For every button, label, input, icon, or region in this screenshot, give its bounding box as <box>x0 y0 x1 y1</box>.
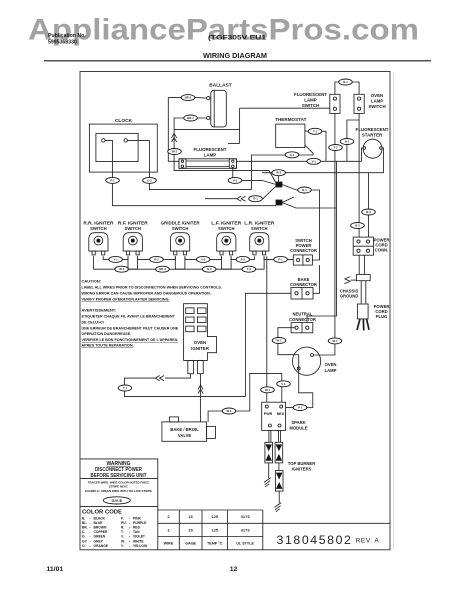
title rule <box>44 60 431 62</box>
svg-text:-: - <box>129 521 130 525</box>
svg-text:V.: V. <box>121 535 124 539</box>
svg-text:Y.: Y. <box>121 544 124 548</box>
svg-text:CHASSIS: CHASSIS <box>340 288 359 293</box>
svg-text:P.: P. <box>121 517 124 521</box>
svg-text:CAUTION:: CAUTION: <box>82 278 102 283</box>
svg-text:-: - <box>129 517 130 521</box>
warning and color code box <box>80 459 158 550</box>
svg-text:ORANGE: ORANGE <box>94 544 109 548</box>
wire to oven lamp left <box>278 344 299 355</box>
wire clock right terminal down <box>127 140 149 177</box>
svg-text:SWITCH: SWITCH <box>218 226 235 231</box>
ballast <box>207 82 232 127</box>
wire V-1 bus <box>236 160 361 162</box>
svg-text:VIOLET: VIOLET <box>133 535 145 539</box>
wire top switch bus <box>335 82 359 94</box>
svg-text:BR-3: BR-3 <box>159 267 166 271</box>
svg-text:R.F. IGNITER: R.F. IGNITER <box>118 220 149 225</box>
power cord plug <box>357 304 389 331</box>
svg-text:G-3: G-3 <box>207 267 212 271</box>
svg-text:P-2: P-2 <box>241 257 246 261</box>
svg-text:VALVE: VALVE <box>178 433 192 438</box>
svg-text:W-1: W-1 <box>276 339 282 343</box>
svg-text:PLUG: PLUG <box>376 314 388 319</box>
svg-text:BR.: BR. <box>82 526 88 530</box>
wire label R-1a <box>249 196 263 202</box>
svg-text:R-2: R-2 <box>154 257 159 261</box>
wire label A2 <box>196 256 210 262</box>
wire <box>236 373 282 411</box>
wire label V-1c <box>293 405 307 411</box>
svg-text:B-3: B-3 <box>366 210 371 214</box>
wire junction A down-left <box>249 186 276 199</box>
wire <box>205 198 237 200</box>
wire label B0 <box>115 266 129 272</box>
svg-text:W-2: W-2 <box>172 150 178 154</box>
wire power cord <box>358 255 360 274</box>
wire label W-1a <box>272 338 286 344</box>
svg-text:OVEN: OVEN <box>371 93 383 98</box>
wire fluorescent lamp switch down long <box>334 113 336 144</box>
bake connector <box>290 277 317 299</box>
svg-text:MODULE: MODULE <box>289 426 307 431</box>
wire <box>286 407 294 409</box>
wire <box>149 184 251 190</box>
wire L.R. switch to spark module PWR <box>266 256 268 386</box>
svg-text:G-1: G-1 <box>290 153 295 157</box>
svg-text:AVERTISSEMENT:: AVERTISSEMENT: <box>82 308 117 313</box>
wire label B-1a <box>339 79 353 85</box>
svg-text:2: 2 <box>167 514 170 519</box>
wire label T-1a <box>308 128 322 134</box>
svg-text:P-1: P-1 <box>278 257 283 261</box>
svg-text:G.: G. <box>82 535 86 539</box>
svg-text:PINK: PINK <box>133 517 141 521</box>
wire label W-4 <box>222 408 236 414</box>
wire L.R. switch to switch power connector <box>264 256 293 259</box>
svg-text:-: - <box>90 539 91 543</box>
main border frame <box>80 72 390 550</box>
wire label B2 <box>202 266 216 272</box>
svg-text:TEMP °C: TEMP °C <box>207 542 223 546</box>
svg-text:P-1: P-1 <box>110 178 115 182</box>
wire <box>322 131 326 161</box>
wire ballast right bus <box>240 107 330 109</box>
chevron up <box>198 385 203 394</box>
wire igniter switch chain bottom row <box>222 256 265 269</box>
svg-text:O.: O. <box>82 544 86 548</box>
chevron left <box>237 196 246 201</box>
switch power connector <box>290 238 317 265</box>
svg-text:B-1: B-1 <box>302 188 307 192</box>
svg-text:GAGE: GAGE <box>185 542 196 546</box>
svg-text:T-1: T-1 <box>123 386 127 390</box>
svg-text:T-1: T-1 <box>313 129 317 133</box>
wire label W-2b <box>272 170 286 176</box>
wire <box>368 215 370 237</box>
wire igniter switch chain bottom row <box>175 256 231 269</box>
chassis ground <box>340 277 359 299</box>
wire igniter 2 to igniter 3 <box>278 463 280 471</box>
wire ballast top-left <box>168 98 206 162</box>
chevron left <box>155 376 164 381</box>
wire power cord lower <box>360 281 362 304</box>
svg-text:STARTER: STARTER <box>362 133 383 138</box>
wire lamp right cap down <box>232 168 234 180</box>
neutral connector <box>289 312 316 333</box>
svg-text:SWITCH: SWITCH <box>125 226 142 231</box>
ground <box>264 478 271 487</box>
igniter switch R.F. IGNITER <box>118 220 149 255</box>
wire neutral drop from V bus <box>307 161 337 322</box>
svg-text:16: 16 <box>188 514 193 519</box>
wire label A1 <box>150 256 164 262</box>
strain relief <box>356 274 370 280</box>
svg-text:12: 12 <box>230 566 238 573</box>
svg-text:L.R. IGNITER: L.R. IGNITER <box>244 220 275 225</box>
wire label B1 <box>156 266 170 272</box>
fluorescent lamp switch <box>294 92 340 113</box>
svg-text:SPARK: SPARK <box>291 420 305 425</box>
svg-text:W-1: W-1 <box>265 388 271 392</box>
svg-text:LAMP: LAMP <box>304 98 317 103</box>
svg-text:3173: 3173 <box>241 514 251 519</box>
svg-text:-: - <box>129 535 130 539</box>
wire igniter switch chain bottom row <box>94 256 138 269</box>
wire label G-1 <box>285 152 299 158</box>
wire <box>112 184 276 206</box>
svg-text:LAMP: LAMP <box>204 153 217 158</box>
wire igniter switch chain top row <box>185 256 222 259</box>
wire label B-2 <box>351 223 365 229</box>
svg-text:B-2: B-2 <box>355 224 360 228</box>
bake broil valve <box>162 417 216 441</box>
junction node B <box>276 200 282 205</box>
svg-text:TAN: TAN <box>133 530 140 534</box>
svg-text:SWITCH: SWITCH <box>302 103 319 108</box>
wire starter right terminal to bus <box>382 148 384 173</box>
svg-text:B-1: B-1 <box>343 80 348 84</box>
svg-text:OVEN: OVEN <box>325 362 337 367</box>
svg-text:C.: C. <box>82 530 85 534</box>
fluorescent starter <box>356 127 389 158</box>
svg-text:T-3: T-3 <box>247 267 251 271</box>
svg-text:125: 125 <box>211 527 218 532</box>
svg-text:IGNITERS: IGNITERS <box>292 466 312 471</box>
wire <box>266 393 268 402</box>
svg-text:FLUORESCENT: FLUORESCENT <box>194 147 227 152</box>
wire ballast bus riser <box>239 108 241 143</box>
wire label P-1b <box>274 256 288 262</box>
svg-text:-: - <box>129 526 130 530</box>
svg-text:SWITCH: SWITCH <box>368 104 385 109</box>
svg-text:W-2: W-2 <box>276 171 282 175</box>
svg-text:V-1: V-1 <box>298 406 303 410</box>
wire junction A up <box>278 176 280 182</box>
svg-text:G-2: G-2 <box>147 178 152 182</box>
svg-text:T.: T. <box>121 530 124 534</box>
svg-text:OPERATION DANGEREUSE.: OPERATION DANGEREUSE. <box>82 332 132 336</box>
wire spec table <box>158 510 390 550</box>
svg-text:LAMP: LAMP <box>371 98 384 103</box>
wire <box>334 151 336 338</box>
wire thermostat lower diagonal <box>305 145 313 155</box>
wire thermostat right <box>305 130 308 133</box>
wire label B3 <box>242 266 256 272</box>
svg-text:ETIQUETER CHAQUE FIL AVANT LE: ETIQUETER CHAQUE FIL AVANT LE BRANCHEMEN… <box>82 315 176 319</box>
wire igniter 1 to ground <box>268 463 270 478</box>
wire <box>358 229 360 238</box>
svg-text:WIRING ERROR CAN CAUSE IMPROPE: WIRING ERROR CAN CAUSE IMPROPER AND DANG… <box>82 291 211 295</box>
ground <box>275 503 282 512</box>
igniter switch L.R. IGNITER <box>244 220 275 255</box>
wire label A3 <box>236 256 250 262</box>
wire W-2 bus <box>262 172 384 174</box>
svg-text:R-1: R-1 <box>253 197 258 201</box>
wire oven igniter right lead to valve <box>199 374 201 422</box>
svg-text:-: - <box>90 535 91 539</box>
wire oven lamp switch branch to junction bus <box>347 120 359 139</box>
wire <box>125 378 156 385</box>
clock <box>89 118 157 172</box>
svg-text:GREEN: GREEN <box>94 535 106 539</box>
svg-text:TOP BURNER: TOP BURNER <box>288 461 316 466</box>
wire label V-2 <box>228 177 242 183</box>
wire under fluorescent lamp <box>174 155 276 183</box>
junction node A <box>276 182 282 187</box>
svg-text:COPPER: COPPER <box>94 530 109 534</box>
wire G-1 bus <box>252 155 314 190</box>
svg-text:1: 1 <box>167 527 170 532</box>
svg-text:T-2: T-2 <box>333 146 337 150</box>
wire label BR-2 <box>181 95 195 101</box>
svg-text:SWITCH: SWITCH <box>251 226 268 231</box>
wire junction B diagonals <box>282 197 294 203</box>
svg-text:WIRING DIAGRAM: WIRING DIAGRAM <box>203 53 267 60</box>
svg-text:125: 125 <box>211 514 218 519</box>
svg-text:V-3: V-3 <box>201 257 206 261</box>
svg-text:5995368330: 5995368330 <box>48 39 77 45</box>
wire valve to bake connector <box>208 411 222 422</box>
svg-text:-: - <box>90 521 91 525</box>
svg-text:-: - <box>90 517 91 521</box>
svg-text:OVEN: OVEN <box>194 340 206 345</box>
svg-text:B.: B. <box>82 517 85 521</box>
svg-text:CONNECTOR: CONNECTOR <box>290 248 317 253</box>
svg-text:RED: RED <box>133 526 141 530</box>
oven lamp switch <box>354 93 386 113</box>
wire <box>125 391 246 396</box>
thermostat <box>275 117 306 148</box>
svg-text:BR-1: BR-1 <box>187 116 194 120</box>
wire junction A to switch power connector <box>282 185 312 191</box>
svg-text:THERMOSTAT: THERMOSTAT <box>275 117 306 122</box>
oven igniter <box>184 304 217 374</box>
power cord connector <box>353 237 389 255</box>
caution note <box>82 278 222 347</box>
svg-text:-: - <box>90 530 91 534</box>
svg-text:PWR: PWR <box>264 412 273 416</box>
svg-text:BALLAST: BALLAST <box>209 82 231 88</box>
svg-text:W-1: W-1 <box>226 409 232 413</box>
spark module <box>262 402 308 430</box>
svg-text:PURPLE: PURPLE <box>133 521 147 525</box>
chevron up <box>172 133 177 142</box>
svg-text:VERIFIER LE BON FONCTIONNEMENT: VERIFIER LE BON FONCTIONNEMENT DE L'APPA… <box>82 338 179 342</box>
svg-text:APRES TOUTE REPARATION.: APRES TOUTE REPARATION. <box>82 343 134 347</box>
wire igniter 3 to ground <box>278 491 280 503</box>
svg-text:Publication No.: Publication No. <box>48 33 86 39</box>
svg-text:VERIFY PROPER OPERATION AFTER: VERIFY PROPER OPERATION AFTER SERVICING. <box>82 297 170 301</box>
fluorescent lamp <box>179 147 237 168</box>
wire bake connector riser <box>245 293 291 396</box>
svg-text:FLUORESCENT: FLUORESCENT <box>356 127 389 132</box>
wire label B-3 <box>362 209 376 215</box>
wire label T-2 <box>329 145 343 151</box>
svg-text:GREY: GREY <box>94 539 104 543</box>
svg-text:BLACK: BLACK <box>94 517 106 521</box>
svg-text:V-1: V-1 <box>312 159 317 163</box>
svg-text:IGNITER: IGNITER <box>191 346 210 351</box>
svg-text:SWITCH: SWITCH <box>172 226 189 231</box>
svg-text:GRIDDLE IGNITER: GRIDDLE IGNITER <box>161 220 201 225</box>
svg-text:BL.: BL. <box>82 521 87 525</box>
svg-text:NEU: NEU <box>277 412 285 416</box>
svg-text:BEFORE SERVICING UNIT: BEFORE SERVICING UNIT <box>91 473 147 479</box>
wire clock left terminal to junction node B <box>105 140 112 177</box>
wire igniter switch chain top row <box>103 256 128 259</box>
top burner igniter 2 <box>275 442 283 463</box>
wire label V-1b <box>277 381 291 387</box>
top burner igniter 3 <box>275 471 283 492</box>
wire ballast bottom-left <box>174 118 207 148</box>
wire <box>281 387 283 402</box>
svg-text:BROWN: BROWN <box>94 526 107 530</box>
svg-text:-: - <box>90 526 91 530</box>
igniter switch L.F. IGNITER <box>211 220 242 255</box>
svg-text:WHITE: WHITE <box>133 539 144 543</box>
wire label W-1b <box>261 387 275 393</box>
svg-text:G/Y-E: G/Y-E <box>111 498 122 503</box>
wire <box>228 142 240 144</box>
svg-text:EXAMPLE: GREEN WIRE WITH YELLO: EXAMPLE: GREEN WIRE WITH YELLOW STRIPE <box>85 489 152 493</box>
wire label T-1b <box>118 385 132 391</box>
svg-text:20: 20 <box>188 527 193 532</box>
wire label V-1a <box>307 158 321 164</box>
wire oven lamp bottom to spark module <box>299 355 313 408</box>
igniter switch GRIDDLE IGNITER <box>161 220 201 255</box>
svg-text:Y-1: Y-1 <box>113 257 118 261</box>
wire <box>174 128 240 130</box>
svg-text:LAMP: LAMP <box>325 368 337 373</box>
svg-text:CONN.: CONN. <box>375 248 389 253</box>
oven lamp <box>293 347 337 375</box>
svg-text:-: - <box>129 539 130 543</box>
svg-text:GROUND: GROUND <box>340 294 359 299</box>
color code list <box>82 517 148 548</box>
top burner igniter 1 <box>265 442 273 463</box>
wire label P-1a <box>106 177 120 183</box>
svg-text:11/01: 11/01 <box>47 566 64 573</box>
svg-text:-: - <box>129 530 130 534</box>
svg-text:BAKE / BROIL: BAKE / BROIL <box>170 427 199 432</box>
svg-text:R.R. IGNITER: R.R. IGNITER <box>83 220 114 225</box>
wire label B-1c <box>340 139 354 145</box>
svg-text:L.F. IGNITER: L.F. IGNITER <box>211 220 242 225</box>
svg-text:V-2: V-2 <box>233 178 238 182</box>
wire label W-5 <box>328 338 342 344</box>
svg-text:CLOCK: CLOCK <box>115 118 133 124</box>
wire oven lamp switch down <box>358 113 360 222</box>
svg-text:W-1: W-1 <box>332 339 338 343</box>
wire <box>312 190 319 260</box>
wire igniter switch chain top row <box>231 256 254 259</box>
svg-text:W-3: W-3 <box>119 267 125 271</box>
svg-text:V-1: V-1 <box>281 382 286 386</box>
svg-text:LABEL ALL WIRES PRIOR TO DISCO: LABEL ALL WIRES PRIOR TO DISCONNECTION W… <box>82 285 222 289</box>
svg-text:CONNECTOR: CONNECTOR <box>290 282 317 287</box>
wire bake connector right <box>313 265 320 293</box>
igniter switch R.R. IGNITER <box>83 220 114 255</box>
wire label BR-1 <box>184 115 198 121</box>
svg-text:YELLOW: YELLOW <box>133 544 148 548</box>
svg-text:BLUE: BLUE <box>94 521 104 525</box>
svg-text:CONNECTOR: CONNECTOR <box>289 317 316 322</box>
svg-text:(TGF305V EU1: (TGF305V EU1 <box>208 34 266 41</box>
svg-text:B-1: B-1 <box>345 140 350 144</box>
wire <box>242 180 276 184</box>
wire neutral connector down <box>278 328 295 338</box>
wire label A0 <box>109 256 123 262</box>
part number box <box>277 533 380 547</box>
wire igniter switch chain top row <box>138 256 176 259</box>
svg-text:-: - <box>90 544 91 548</box>
wire starter to power cord conn <box>368 173 370 209</box>
wire igniter switch chain bottom row <box>128 256 185 269</box>
svg-text:PU.: PU. <box>121 521 127 525</box>
svg-text:-: - <box>129 544 130 548</box>
svg-text:SWITCH: SWITCH <box>90 226 107 231</box>
svg-text:COLOR CODE: COLOR CODE <box>82 510 122 516</box>
wire label B-1b <box>298 187 312 193</box>
svg-text:DE CELUI-CI: DE CELUI-CI <box>82 320 104 324</box>
svg-text:GY.: GY. <box>82 539 88 543</box>
svg-text:WIRE: WIRE <box>164 542 174 546</box>
svg-text:BAKE: BAKE <box>298 277 310 282</box>
svg-text:UNE ERREUR DE BRANCHEMENT PEUT: UNE ERREUR DE BRANCHEMENT PEUT CAUSER UN… <box>82 326 179 330</box>
svg-text:UL STYLE: UL STYLE <box>236 542 254 546</box>
wire spark module to igniters <box>268 430 270 442</box>
svg-text:W.: W. <box>121 539 125 543</box>
wire label G-2a <box>143 177 157 183</box>
wire <box>346 145 348 162</box>
svg-text:FLUORESCENT: FLUORESCENT <box>294 92 327 97</box>
wire starter left terminal to bus <box>362 148 364 161</box>
svg-text:R.: R. <box>121 526 124 530</box>
svg-text:BR-2: BR-2 <box>185 96 192 100</box>
svg-text:318045802: 318045802 <box>277 533 353 547</box>
svg-text:REV. A: REV. A <box>356 538 380 545</box>
wire label W-2a <box>168 149 182 155</box>
wire oven igniter left lead <box>165 374 191 378</box>
svg-text:3173: 3173 <box>241 527 251 532</box>
